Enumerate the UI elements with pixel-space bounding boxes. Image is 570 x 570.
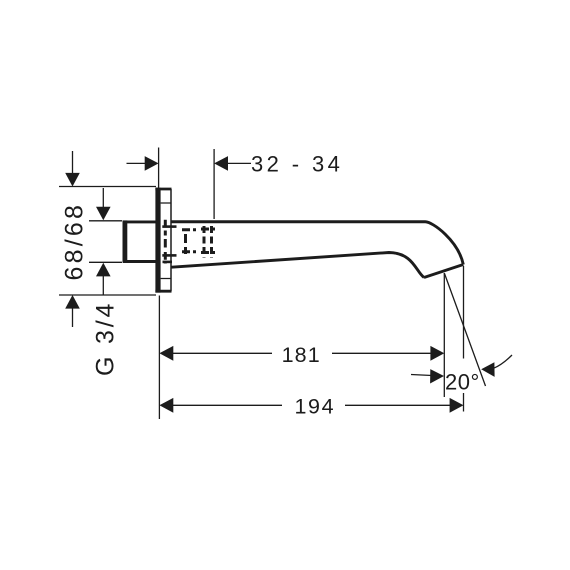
svg-text:181: 181 xyxy=(282,343,321,367)
dim 68 top arrowhead xyxy=(65,173,80,187)
ext line A from spout tip bottom xyxy=(443,273,445,397)
extension line plate-face vertical (32-34 left) xyxy=(158,148,160,189)
ext line B lower segment (gap at 20deg text) xyxy=(463,393,465,412)
dim 68 bottom arrowhead xyxy=(65,295,80,309)
dim 32-34 right leader xyxy=(226,162,251,164)
G3/4 pipe nipple left face (thick bar) xyxy=(123,220,128,262)
ext line pipe top (G3/4 dim) xyxy=(89,220,122,222)
svg-text:194: 194 xyxy=(295,394,336,418)
hidden bore lower line (dashed) xyxy=(162,254,176,257)
dim G3/4 bottom shaft xyxy=(102,275,104,295)
dim 194 right arrowhead xyxy=(450,398,464,413)
hidden nut top dash xyxy=(201,228,215,231)
dim 68 top shaft xyxy=(72,151,74,175)
hidden bore upper line (dashed) xyxy=(162,225,176,228)
svg-text:G 3/4: G 3/4 xyxy=(92,301,120,376)
hidden nut right vertical (dashed) xyxy=(210,226,213,258)
dim 181 left arrowhead xyxy=(159,346,173,361)
water stream 20deg angled line xyxy=(444,273,485,386)
svg-text:68/68: 68/68 xyxy=(61,202,89,281)
dim 181 line right segment xyxy=(332,352,433,354)
dim 181 right arrowhead xyxy=(430,346,444,361)
svg-text:32 - 34: 32 - 34 xyxy=(251,152,343,177)
angle 20deg right leader curve xyxy=(494,355,513,368)
dim 32-34 right arrowhead xyxy=(214,156,228,171)
escutcheon plate right edge xyxy=(170,189,172,291)
angle 20deg right arrowhead xyxy=(481,362,494,377)
dim G3/4 top arrowhead xyxy=(96,207,111,221)
dim 194 line left segment xyxy=(171,404,282,406)
escutcheon plate left face (thick bar) xyxy=(155,188,160,293)
dim 68 bottom shaft xyxy=(72,307,74,327)
ext line pipe bottom (G3/4 dim) xyxy=(89,261,122,263)
ext line B from spout tip top (upper segment) xyxy=(463,266,465,359)
hidden nut bottom dash xyxy=(201,251,215,254)
ext line plate bottom (68 dim) xyxy=(59,294,156,296)
spout bottom edge xyxy=(172,253,425,278)
dim 194 line right segment xyxy=(345,404,452,406)
ext line bottom-left vertical xyxy=(158,296,160,420)
dim 32-34 left leader xyxy=(127,162,147,164)
ext line plate top (68 dim) xyxy=(59,186,156,188)
dim 181 line left segment xyxy=(171,352,272,354)
dim G3/4 bottom arrowhead xyxy=(96,263,111,277)
dim 32-34 left arrowhead xyxy=(145,156,159,171)
spout top edge xyxy=(172,222,464,265)
spout tip face xyxy=(424,265,463,278)
angle 20deg left leader xyxy=(411,375,432,376)
dim 194 left arrowhead xyxy=(159,398,173,413)
escutcheon plate outline xyxy=(155,189,171,291)
extension line spout reference vertical (32-34 right) xyxy=(213,149,215,219)
hidden union bottom dash xyxy=(182,250,196,253)
hidden pipe foot dash xyxy=(163,261,173,264)
hidden union top dash xyxy=(182,228,196,231)
dim G3/4 top shaft xyxy=(102,188,104,209)
escutcheon plate inner chamfer lines xyxy=(161,203,171,279)
svg-text:20°: 20° xyxy=(445,369,480,394)
hidden nut left vertical (dashed) xyxy=(203,226,206,258)
hidden pipe vertical (dashed) xyxy=(164,220,167,264)
G3/4 pipe nipple outline xyxy=(123,222,157,262)
angle 20deg left arrowhead xyxy=(430,369,444,383)
hidden union vertical dash xyxy=(184,234,187,254)
